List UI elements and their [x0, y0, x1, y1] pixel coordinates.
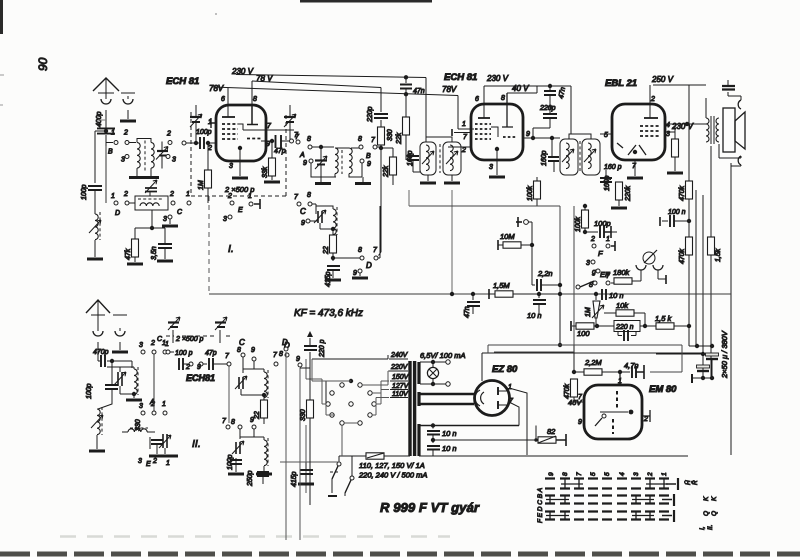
svg-text:Q: Q	[703, 511, 710, 516]
svg-text:100p: 100p	[81, 184, 88, 200]
svg-text:100 p: 100 p	[175, 350, 193, 357]
svg-text:9: 9	[197, 364, 201, 371]
svg-text:220k: 220k	[625, 185, 632, 202]
svg-text:3: 3	[489, 164, 493, 171]
svg-text:470k: 470k	[564, 383, 571, 399]
svg-text:47p: 47p	[274, 148, 286, 155]
svg-text:2,2M: 2,2M	[584, 358, 602, 367]
svg-text:2: 2	[166, 131, 171, 138]
svg-text:ECH81: ECH81	[186, 373, 215, 383]
svg-text:100 n: 100 n	[668, 209, 686, 216]
svg-text:250 V: 250 V	[651, 75, 674, 84]
svg-text:I.: I.	[228, 243, 234, 255]
svg-text:7: 7	[463, 134, 468, 141]
svg-text:220p: 220p	[367, 106, 374, 123]
svg-text:100: 100	[577, 329, 590, 338]
svg-text:110V: 110V	[392, 391, 409, 398]
svg-text:415p: 415p	[291, 471, 298, 487]
svg-text:8: 8	[307, 192, 311, 199]
svg-text:470k: 470k	[679, 248, 686, 264]
svg-text:4: 4	[619, 472, 626, 476]
svg-text:R̄: R̄	[691, 480, 699, 485]
svg-text:330: 330	[300, 409, 307, 421]
svg-text:1: 1	[186, 191, 190, 198]
svg-text:2: 2	[152, 458, 157, 465]
svg-text:150V: 150V	[392, 374, 410, 381]
svg-text:1: 1	[162, 401, 166, 408]
svg-text:E: E	[146, 461, 151, 468]
svg-text:22k: 22k	[396, 132, 403, 145]
svg-text:10 n: 10 n	[442, 429, 457, 438]
svg-text:D: D	[366, 261, 372, 270]
svg-text:5: 5	[604, 132, 608, 139]
svg-text:47n: 47n	[558, 87, 567, 100]
svg-text:8: 8	[358, 136, 362, 143]
svg-text:C: C	[177, 209, 183, 216]
svg-text:46V: 46V	[568, 398, 582, 407]
svg-text:1: 1	[508, 384, 512, 391]
svg-text:220 p: 220 p	[319, 339, 326, 358]
svg-text:9: 9	[578, 419, 582, 426]
svg-text:7: 7	[273, 352, 278, 359]
svg-text:2,2n: 2,2n	[537, 269, 553, 278]
svg-text:8: 8	[501, 95, 505, 102]
svg-text:EM 80: EM 80	[649, 384, 677, 395]
svg-text:100p: 100p	[86, 383, 93, 399]
svg-text:EBL 21: EBL 21	[605, 78, 637, 89]
svg-text:ECH 81: ECH 81	[166, 76, 199, 87]
svg-text:78V: 78V	[209, 84, 224, 93]
svg-text:E: E	[238, 207, 243, 214]
svg-text:100p: 100p	[227, 454, 234, 470]
svg-text:10 n: 10 n	[442, 444, 457, 453]
svg-text:470k: 470k	[679, 185, 686, 201]
svg-text:22: 22	[254, 411, 261, 420]
svg-text:I,: I,	[699, 526, 706, 530]
svg-text:1: 1	[661, 472, 668, 476]
svg-text:6: 6	[221, 96, 225, 103]
svg-text:3: 3	[121, 157, 125, 164]
svg-text:220p: 220p	[539, 105, 556, 112]
svg-text:330: 330	[387, 129, 394, 141]
svg-text:II.: II.	[192, 438, 201, 450]
svg-text:8: 8	[231, 419, 235, 426]
svg-text:II.: II.	[707, 524, 714, 530]
svg-text:C: C	[239, 338, 245, 347]
svg-text:8: 8	[279, 351, 283, 358]
svg-text:1: 1	[166, 460, 170, 467]
svg-text:240V: 240V	[390, 352, 409, 359]
svg-text:100p: 100p	[196, 129, 212, 136]
svg-text:3,5n: 3,5n	[151, 246, 158, 260]
svg-text:1,5 k: 1,5 k	[655, 314, 673, 323]
svg-text:33k: 33k	[262, 166, 269, 178]
svg-text:47n: 47n	[464, 306, 471, 318]
svg-text:2 ×500 p: 2 ×500 p	[175, 336, 204, 343]
svg-text:5: 5	[604, 472, 611, 476]
svg-text:F E D C B A: F E D C B A	[537, 488, 544, 523]
svg-text:C: C	[300, 207, 306, 216]
svg-text:A: A	[299, 152, 305, 159]
svg-text:10 n: 10 n	[527, 311, 542, 320]
svg-text:1M: 1M	[585, 307, 592, 317]
svg-text:3: 3	[163, 216, 167, 223]
svg-text:2×50 μ / 380V: 2×50 μ / 380V	[720, 330, 729, 379]
svg-text:1: 1	[462, 121, 466, 128]
svg-text:g: g	[592, 269, 596, 276]
svg-text:10M: 10M	[500, 232, 515, 241]
svg-text:9: 9	[303, 160, 307, 167]
svg-text:9: 9	[353, 270, 357, 277]
svg-text:7: 7	[371, 137, 376, 144]
svg-text:KF = 473,6 kHz: KF = 473,6 kHz	[294, 308, 363, 319]
svg-text:D: D	[115, 210, 120, 217]
svg-text:9: 9	[301, 220, 305, 227]
svg-text:9: 9	[367, 161, 371, 168]
svg-text:3: 3	[633, 472, 640, 476]
svg-text:EZ 80: EZ 80	[492, 364, 518, 375]
svg-text:F: F	[598, 249, 603, 258]
svg-text:R 999 F VT gyár: R 999 F VT gyár	[380, 500, 480, 515]
svg-text:9: 9	[250, 417, 254, 424]
svg-text:2: 2	[590, 236, 595, 243]
svg-text:K: K	[711, 496, 718, 501]
svg-text:8: 8	[237, 347, 241, 354]
svg-text:10 n: 10 n	[609, 291, 624, 300]
svg-text:22: 22	[323, 246, 330, 255]
svg-text:7: 7	[576, 472, 583, 476]
svg-text:ECH 81: ECH 81	[444, 72, 477, 83]
svg-text:3: 3	[229, 163, 233, 170]
svg-text:9: 9	[266, 141, 270, 148]
svg-text:2: 2	[461, 147, 466, 154]
svg-text:7: 7	[267, 123, 272, 130]
svg-text:1: 1	[248, 193, 252, 200]
svg-text:90: 90	[36, 57, 50, 71]
svg-text:160 p: 160 p	[604, 164, 622, 171]
svg-text:3: 3	[138, 458, 142, 465]
svg-text:330: 330	[135, 419, 142, 431]
svg-text:110, 127, 150 V/ 1A: 110, 127, 150 V/ 1A	[359, 461, 425, 470]
svg-text:7: 7	[225, 353, 230, 360]
svg-text:8: 8	[253, 96, 257, 103]
svg-text:3: 3	[223, 216, 227, 223]
svg-text:100k: 100k	[527, 185, 534, 201]
svg-text:3: 3	[586, 260, 590, 267]
svg-text:H̄: H̄	[684, 480, 692, 485]
svg-text:D: D	[282, 338, 288, 347]
svg-text:220V: 220V	[390, 364, 409, 371]
svg-text:8: 8	[562, 472, 569, 476]
svg-text:1: 1	[111, 130, 115, 137]
svg-text:2: 2	[123, 130, 128, 137]
svg-text:2: 2	[650, 96, 655, 103]
svg-text:1,5M: 1,5M	[493, 281, 510, 290]
svg-text:2: 2	[185, 364, 190, 371]
svg-text:5: 5	[590, 472, 597, 476]
svg-text:2: 2	[227, 193, 232, 200]
svg-text:2: 2	[169, 191, 174, 198]
svg-text:1M: 1M	[198, 180, 205, 190]
svg-text:2: 2	[647, 472, 654, 477]
svg-text:22k: 22k	[383, 165, 390, 178]
svg-text:2: 2	[123, 191, 128, 198]
svg-text:1: 1	[111, 193, 115, 200]
svg-text:470p: 470p	[93, 349, 109, 356]
svg-text:2: 2	[643, 416, 648, 423]
svg-text:100k: 100k	[575, 216, 582, 232]
svg-text:230 V: 230 V	[671, 122, 694, 131]
svg-text:Q: Q	[711, 511, 718, 516]
svg-text:127V: 127V	[392, 383, 410, 390]
svg-text:4: 4	[666, 122, 670, 129]
svg-text:82: 82	[547, 427, 556, 436]
svg-text:180k: 180k	[613, 268, 631, 277]
svg-text:9: 9	[251, 347, 255, 354]
svg-text:160p: 160p	[541, 150, 548, 166]
svg-text:2: 2	[150, 340, 155, 347]
svg-text:9: 9	[548, 472, 555, 476]
svg-text:7: 7	[294, 194, 299, 201]
svg-text:47k: 47k	[125, 248, 132, 260]
svg-text:40 V: 40 V	[512, 84, 529, 93]
svg-text:230 V: 230 V	[486, 74, 509, 83]
svg-text:3: 3	[139, 342, 143, 349]
svg-text:9: 9	[296, 356, 300, 363]
svg-text:1: 1	[606, 236, 610, 243]
svg-text:10k: 10k	[616, 301, 629, 310]
svg-text:7: 7	[222, 418, 227, 425]
svg-text:1,5k: 1,5k	[715, 248, 722, 262]
svg-text:8: 8	[307, 136, 311, 143]
svg-text:220, 240 V / 500 mA: 220, 240 V / 500 mA	[358, 471, 427, 480]
svg-text:7: 7	[606, 273, 611, 280]
svg-text:1: 1	[165, 341, 169, 348]
svg-text:78V: 78V	[442, 85, 457, 94]
svg-text:47p: 47p	[205, 350, 217, 357]
svg-text:7: 7	[373, 247, 378, 254]
svg-text:6: 6	[475, 96, 479, 103]
svg-text:8: 8	[358, 247, 362, 254]
svg-text:100p: 100p	[594, 219, 611, 228]
svg-text:250p: 250p	[247, 470, 254, 487]
svg-text:6,5V/ 100 mA: 6,5V/ 100 mA	[420, 351, 465, 360]
svg-text:K: K	[703, 496, 710, 501]
svg-text:3: 3	[139, 403, 143, 410]
svg-text:9: 9	[526, 131, 530, 138]
svg-text:47n: 47n	[413, 88, 425, 95]
svg-text:3: 3	[172, 157, 176, 164]
svg-text:400p: 400p	[96, 111, 103, 127]
svg-text:220 n: 220 n	[615, 324, 634, 331]
svg-text:B: B	[366, 153, 371, 160]
svg-text:B: B	[108, 149, 113, 156]
